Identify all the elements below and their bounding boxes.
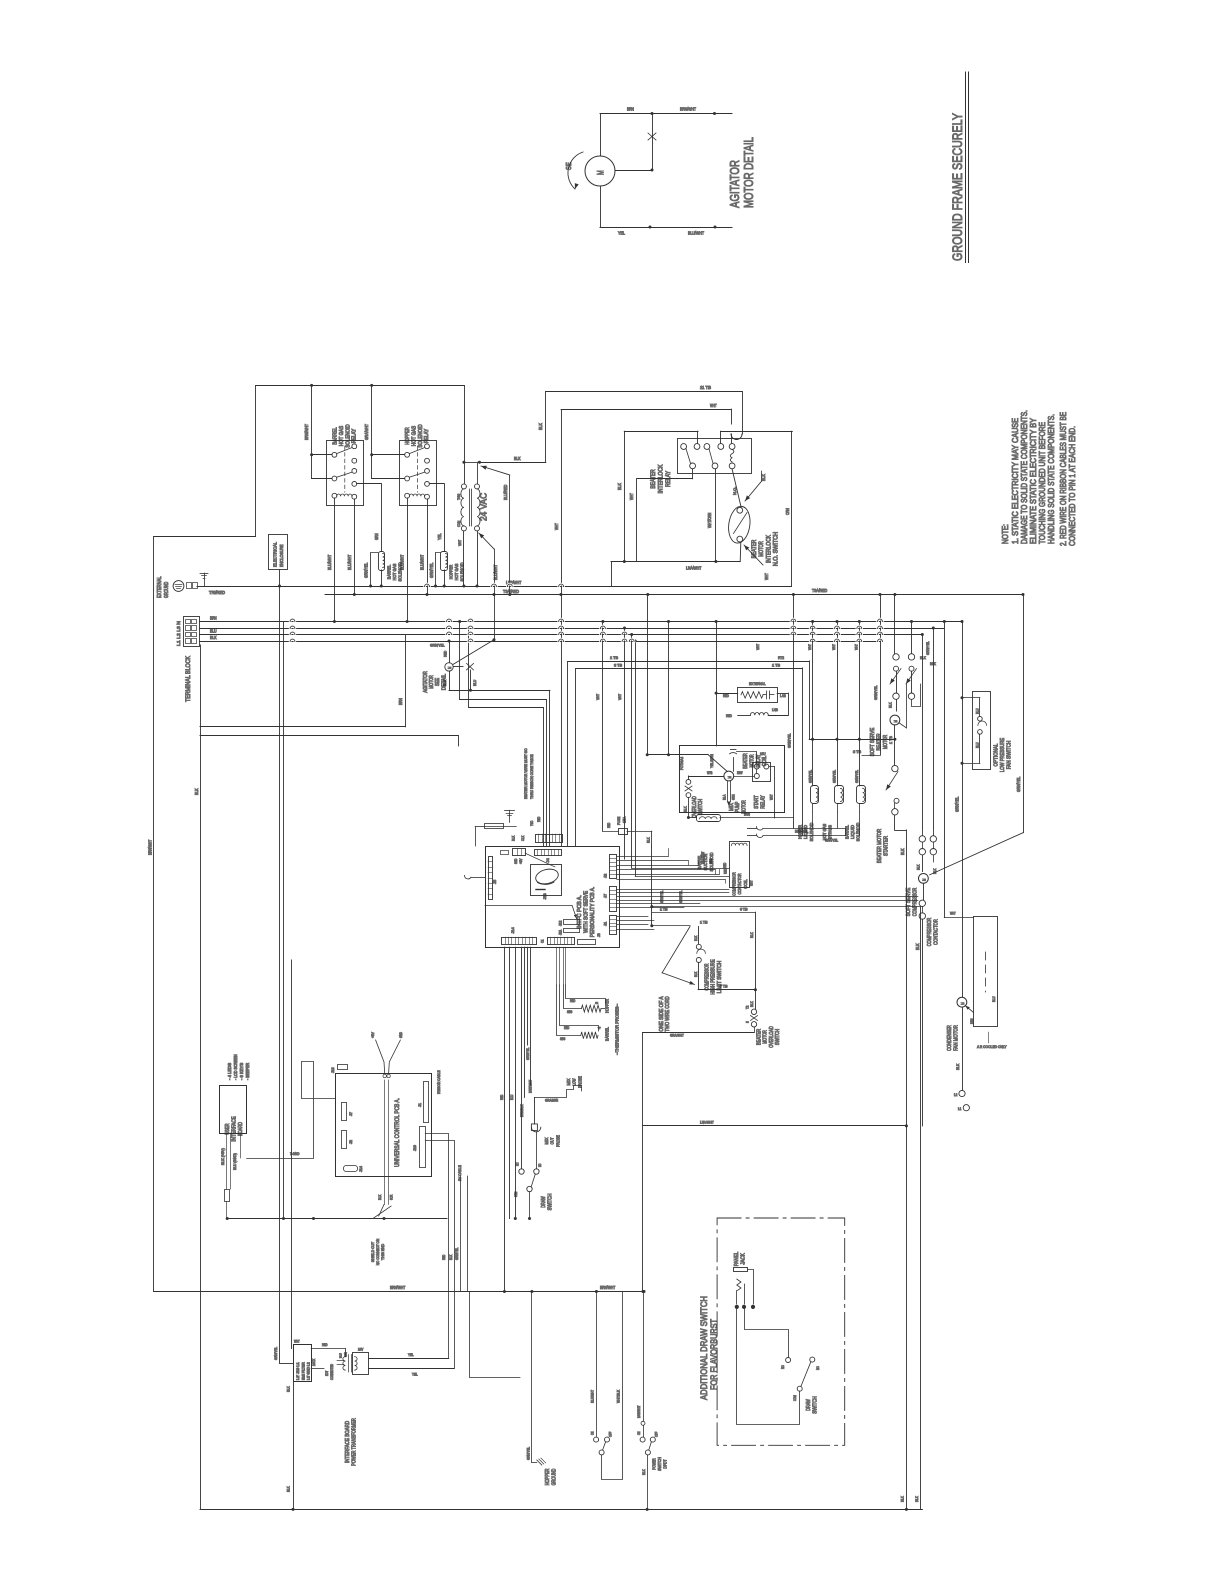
svg-text:RED: RED [570, 999, 576, 1003]
svg-text:CONTACTOR: CONTACTOR [934, 919, 940, 945]
svg-text:SOFT SERVE: SOFT SERVE [870, 727, 876, 756]
svg-text:OPTIONAL: OPTIONAL [994, 744, 1000, 767]
svg-text:BLU: BLU [210, 629, 217, 634]
svg-text:--THERMISTOR PROBES--: --THERMISTOR PROBES-- [615, 1003, 620, 1055]
svg-text:RED: RED [442, 1254, 446, 1260]
svg-text:BRN: BRN [744, 813, 750, 817]
svg-text:GROUND: GROUND [164, 582, 170, 598]
svg-text:9V CABLE: 9V CABLE [458, 1165, 462, 1181]
svg-text:BLK: BLK [442, 680, 447, 686]
svg-text:SIG: SIG [560, 1037, 566, 1041]
svg-text:RED: RED [322, 1343, 328, 1347]
svg-text:BRN/WHT: BRN/WHT [304, 424, 309, 440]
svg-text:AGITATOR: AGITATOR [423, 671, 429, 693]
svg-text:WHT: WHT [832, 644, 836, 650]
svg-text:TWC: TWC [530, 820, 534, 826]
svg-text:BRN/WHT: BRN/WHT [148, 839, 153, 855]
svg-text:GRN/YEL: GRN/YEL [855, 770, 859, 783]
svg-text:15A: 15A [622, 817, 627, 823]
svg-text:COMPRESSOR: COMPRESSOR [913, 888, 919, 917]
svg-text:BLK: BLK [915, 1496, 919, 1502]
svg-text:BLK: BLK [750, 1001, 754, 1007]
svg-text:+5V: +5V [519, 858, 523, 864]
svg-text:J9: J9 [597, 933, 601, 937]
svg-text:M: M [727, 776, 732, 779]
svg-text:CONDENSER: CONDENSER [947, 1025, 953, 1051]
svg-text:MIX: MIX [566, 1079, 571, 1086]
svg-text:NC: NC [516, 1162, 520, 1166]
svg-text:WHT: WHT [617, 693, 622, 700]
svg-text:HOPPER: HOPPER [545, 1469, 551, 1486]
svg-text:GRA/WHT: GRA/WHT [701, 852, 705, 864]
svg-text:J10: J10 [413, 1145, 417, 1151]
svg-text:YEL: YEL [437, 533, 442, 540]
svg-text:N.O. SWITCH: N.O. SWITCH [774, 532, 780, 566]
svg-text:24V: 24V [358, 1348, 364, 1352]
svg-text:JACK: JACK [741, 1253, 747, 1265]
svg-text:WHT/ORN: WHT/ORN [707, 513, 712, 528]
svg-text:LNA/WHT: LNA/WHT [700, 1121, 714, 1125]
svg-text:BLU/WHT: BLU/WHT [493, 564, 498, 580]
svg-text:CLK: CLK [521, 835, 525, 841]
svg-text:MOTOR DETAIL: MOTOR DETAIL [741, 137, 756, 208]
svg-text:C1: C1 [541, 939, 545, 943]
svg-text:BLK: BLK [647, 837, 651, 843]
svg-text:WITH SOFT SERVE: WITH SOFT SERVE [584, 891, 590, 933]
svg-text:M: M [893, 720, 898, 723]
svg-text:HOT GAS: HOT GAS [454, 564, 459, 581]
svg-text:T3A/RED: T3A/RED [812, 588, 827, 593]
svg-text:GRN/YEL: GRN/YEL [429, 562, 434, 578]
svg-text:- 4 LEDS: - 4 LEDS [227, 1063, 232, 1080]
svg-text:HOT GAS: HOT GAS [339, 426, 345, 447]
svg-text:ON: ON [591, 1431, 595, 1435]
svg-text:1 TB: 1 TB [700, 921, 708, 925]
svg-text:RELAY: RELAY [352, 428, 358, 443]
svg-text:EXTERNAL: EXTERNAL [157, 576, 163, 598]
svg-text:HOPPER: HOPPER [605, 998, 610, 1013]
svg-text:24 VAC: 24 VAC [479, 492, 489, 521]
svg-text:SOLENOID: SOLENOID [345, 424, 351, 447]
svg-text:SWITCH: SWITCH [657, 1457, 662, 1471]
svg-text:FUSE: FUSE [616, 816, 621, 825]
svg-text:GRN/YEL: GRN/YEL [808, 770, 812, 783]
svg-text:START: START [754, 795, 760, 809]
svg-text:BRN: BRN [970, 1018, 974, 1024]
svg-text:BLK: BLK [194, 788, 199, 795]
svg-text:7 TB: 7 TB [720, 985, 728, 989]
svg-text:J13: J13 [331, 1067, 335, 1073]
svg-text:SWITCH: SWITCH [775, 1029, 781, 1045]
svg-text:N.O.: N.O. [732, 487, 737, 495]
svg-text:ONE SIDE OF A: ONE SIDE OF A [659, 996, 665, 1032]
svg-text:YEL: YEL [618, 231, 625, 236]
svg-text:YEL: YEL [412, 1373, 418, 1377]
svg-text:- LCD SCREEN: - LCD SCREEN [233, 1054, 238, 1080]
svg-text:GRN/YEL: GRN/YEL [660, 891, 664, 903]
svg-text:GRN/YEL: GRN/YEL [787, 733, 792, 748]
svg-text:LNA/WHT: LNA/WHT [686, 566, 702, 571]
svg-text:GRA/BRN: GRA/BRN [545, 1099, 558, 1103]
svg-text:WHT: WHT [855, 644, 859, 650]
svg-text:BLU/WHT: BLU/WHT [420, 554, 425, 570]
svg-text:YEL/BRN: YEL/BRN [710, 754, 714, 768]
svg-text:COM: COM [514, 1192, 518, 1197]
svg-text:BEATER: BEATER [743, 753, 749, 769]
svg-text:RED: RED [500, 1094, 504, 1100]
svg-text:BLU: BLU [472, 680, 477, 686]
svg-text:RED: RED [723, 862, 727, 868]
svg-text:POWER TRANSFORMER: POWER TRANSFORMER [352, 1418, 358, 1466]
svg-text:M: M [447, 667, 452, 669]
svg-text:BLK: BLK [210, 635, 217, 640]
svg-text:BLK: BLK [761, 474, 766, 481]
svg-text:TERMINAL BLOCK: TERMINAL BLOCK [185, 656, 192, 702]
svg-text:CONNECTED TO PIN 1 AT EACH END: CONNECTED TO PIN 1 AT EACH END. [1067, 426, 1077, 546]
svg-text:GND: GND [514, 858, 518, 864]
svg-text:EMI FILTER: EMI FILTER [302, 1362, 306, 1380]
svg-text:BLK: BLK [900, 848, 905, 855]
svg-text:GRN/YEL: GRN/YEL [364, 562, 369, 578]
svg-text:BLU: BLU [975, 742, 979, 748]
svg-text:BLK: BLK [684, 806, 688, 812]
svg-text:WHT: WHT [755, 643, 760, 650]
svg-text:BRN/WHT: BRN/WHT [680, 107, 696, 112]
svg-text:CONTACTOR: CONTACTOR [737, 873, 742, 895]
svg-text:L1' J10 L1: L1' J10 L1 [296, 1362, 300, 1380]
svg-text:ADDITIONAL DRAW SWITCH: ADDITIONAL DRAW SWITCH [699, 1296, 709, 1400]
svg-text:MOTOR: MOTOR [763, 1030, 769, 1044]
svg-text:RED: RED [537, 816, 541, 822]
svg-text:SCR: SCR [390, 1194, 394, 1200]
svg-text:HOPPER: HOPPER [405, 427, 411, 445]
svg-text:OFF: OFF [609, 1432, 613, 1437]
svg-text:WHT: WHT [554, 523, 559, 530]
svg-text:CONNECTED: CONNECTED [330, 1364, 334, 1380]
svg-text:THRU RIBBON CORE TWICE: THRU RIBBON CORE TWICE [529, 754, 534, 799]
svg-text:OUT: OUT [550, 1137, 555, 1144]
svg-text:J1: J1 [418, 1103, 422, 1107]
svg-text:BLK: BLK [617, 483, 622, 490]
svg-text:PERSONALITY PCB A.: PERSONALITY PCB A. [590, 887, 596, 938]
svg-text:L1: L1 [958, 1107, 962, 1111]
svg-text:1 TB: 1 TB [772, 663, 780, 668]
svg-text:BLU: BLU [339, 1353, 343, 1358]
svg-text:M: M [960, 1002, 965, 1005]
svg-text:MOTOR: MOTOR [429, 675, 435, 689]
svg-text:RELAY: RELAY [424, 428, 430, 443]
svg-text:RELAY: RELAY [760, 795, 766, 809]
svg-text:BLK: BLK [512, 835, 516, 841]
svg-text:THIS END: THIS END [380, 1244, 385, 1260]
svg-text:FAN MOTOR: FAN MOTOR [954, 1025, 960, 1051]
svg-text:J13: J13 [542, 893, 547, 900]
svg-text:BEATER: BEATER [877, 733, 883, 750]
svg-text:BARREL: BARREL [333, 427, 339, 445]
svg-text:J2: J2 [349, 1140, 353, 1144]
svg-text:BLU/WHT: BLU/WHT [400, 554, 405, 570]
svg-text:GRN/YEL: GRN/YEL [1016, 776, 1021, 792]
svg-text:1 TB: 1 TB [610, 655, 618, 660]
svg-text:USER: USER [225, 1123, 231, 1134]
svg-text:A R COOLED ONLY: A R COOLED ONLY [977, 1045, 1007, 1049]
svg-text:T2: T2 [746, 1006, 750, 1009]
svg-text:BLK/WHT: BLK/WHT [591, 1389, 595, 1403]
svg-text:BLU/RED: BLU/RED [503, 485, 508, 500]
svg-text:STARTER: STARTER [884, 836, 890, 856]
svg-text:J11: J11 [559, 930, 563, 935]
svg-text:W7B: W7B [707, 771, 713, 775]
svg-text:COMPRESSOR: COMPRESSOR [705, 963, 711, 990]
svg-text:WHT: WHT [710, 403, 717, 408]
svg-text:WHT: WHT [750, 880, 754, 886]
svg-text:BRN/WHT: BRN/WHT [390, 1285, 406, 1290]
svg-text:M: M [596, 170, 606, 175]
svg-text:1 TB: 1 TB [889, 736, 893, 744]
svg-text:K5W: K5W [737, 771, 743, 775]
svg-text:11 TB: 11 TB [700, 385, 711, 390]
svg-text:GROUND: GROUND [551, 1469, 557, 1486]
svg-text:LOW PRESSURE: LOW PRESSURE [1000, 738, 1006, 773]
svg-text:MIX: MIX [544, 1138, 549, 1145]
svg-text:GRN/YEL: GRN/YEL [430, 643, 445, 648]
svg-text:DRAW: DRAW [541, 1196, 547, 1208]
svg-text:BRN/BLK: BRN/BLK [520, 1104, 524, 1117]
svg-text:GROUND FRAME SECURELY: GROUND FRAME SECURELY [950, 113, 965, 261]
svg-text:BLK: BLK [889, 702, 893, 708]
svg-text:GRN/YEL: GRN/YEL [873, 685, 878, 700]
svg-text:740: 740 [456, 493, 461, 500]
svg-text:SOLENOID: SOLENOID [809, 822, 814, 841]
svg-text:J14: J14 [510, 927, 515, 934]
svg-text:BARREL: BARREL [844, 825, 849, 839]
svg-text:RED: RED [726, 714, 732, 718]
svg-text:HOT GAS: HOT GAS [392, 564, 397, 581]
svg-text:BLU: BLU [992, 996, 996, 1002]
svg-text:PROBE: PROBE [577, 1076, 582, 1088]
svg-text:BLK: BLK [694, 935, 698, 941]
svg-text:ON: ON [637, 1431, 641, 1435]
svg-text:NOT: NOT [325, 1371, 329, 1376]
svg-text:BARREL: BARREL [387, 564, 392, 579]
svg-text:SWITCH: SWITCH [547, 1194, 553, 1211]
svg-text:RED: RED [723, 694, 729, 698]
svg-text:DPDT: DPDT [662, 1459, 667, 1468]
svg-text:HIGH PRESSURE: HIGH PRESSURE [711, 959, 717, 995]
svg-text:BLU: BLU [975, 708, 979, 714]
svg-text:SIG: SIG [567, 1010, 573, 1014]
svg-text:INTFC PCB A.: INTFC PCB A. [577, 895, 583, 929]
svg-text:GRN/YEL: GRN/YEL [455, 1248, 459, 1260]
svg-text:WHT/BLK: WHT/BLK [617, 1389, 621, 1403]
svg-text:NO: NO [816, 1366, 820, 1370]
svg-text:NC: NC [781, 1365, 785, 1369]
svg-text:L2: L2 [954, 1093, 958, 1097]
svg-text:GRN/YEL: GRN/YEL [833, 770, 837, 783]
svg-text:SWITCH: SWITCH [698, 799, 704, 815]
svg-text:PROBE: PROBE [555, 1135, 560, 1147]
svg-text:7-GND: 7-GND [290, 1152, 300, 1156]
svg-text:RED: RED [564, 1026, 570, 1030]
svg-text:BRN/WHT: BRN/WHT [600, 1285, 616, 1290]
svg-text:GND: GND [399, 1032, 403, 1038]
svg-text:GRN: GRN [344, 1352, 348, 1357]
svg-text:COMPRESSOR: COMPRESSOR [732, 872, 737, 896]
svg-text:HOPPER: HOPPER [449, 564, 454, 579]
svg-text:M: M [922, 878, 927, 881]
svg-text:RIBBON CABLE: RIBBON CABLE [437, 1070, 441, 1094]
svg-text:SEE: SEE [435, 678, 441, 687]
svg-text:PUMP: PUMP [735, 801, 741, 812]
svg-text:BRN: BRN [398, 698, 403, 705]
svg-text:WHT: WHT [629, 493, 634, 500]
svg-text:BEATER MOTOR: BEATER MOTOR [877, 829, 883, 863]
svg-text:3 TB: 3 TB [614, 663, 622, 668]
svg-text:J7: J7 [349, 1112, 353, 1116]
svg-text:INTERFACE BOARD: INTERFACE BOARD [345, 1421, 351, 1463]
svg-text:POWER: POWER [652, 1458, 657, 1469]
svg-text:SWITCH: SWITCH [813, 1396, 819, 1414]
svg-text:BLK: BLK [642, 1469, 646, 1475]
svg-text:WHT: WHT [294, 1340, 300, 1344]
svg-text:COIL: COIL [743, 879, 748, 889]
svg-text:INTERLOCK: INTERLOCK [766, 535, 772, 563]
svg-text:PCT08A4: PCT08A4 [680, 757, 684, 770]
svg-text:PANEL: PANEL [734, 1252, 740, 1267]
svg-text:UNIVERSAL CONTROL PCB A.: UNIVERSAL CONTROL PCB A. [394, 1098, 401, 1167]
svg-text:WHT: WHT [595, 693, 600, 700]
svg-text:BLK: BLK [915, 943, 920, 950]
svg-text:BYPASS: BYPASS [828, 825, 833, 839]
svg-text:BEATER MOTOR WIRE MUST GO: BEATER MOTOR WIRE MUST GO [523, 748, 528, 799]
svg-text:BLK: BLK [538, 423, 543, 430]
svg-text:BLK: BLK [287, 1386, 291, 1392]
svg-text:NO: NO [538, 1163, 542, 1167]
svg-text:LOW: LOW [572, 1078, 577, 1086]
svg-text:LIQUID: LIQUID [850, 824, 855, 839]
svg-text:BLU/WHT: BLU/WHT [347, 554, 352, 570]
svg-text:10U: 10U [760, 752, 766, 756]
svg-text:RED: RED [607, 822, 611, 828]
svg-text:GRN: GRN [709, 858, 713, 864]
svg-text:YEL: YEL [408, 1353, 414, 1357]
svg-text:BEATER: BEATER [752, 539, 758, 558]
svg-text:GRN: GRN [732, 794, 736, 800]
svg-text:BLK (+5V): BLK (+5V) [221, 1148, 225, 1165]
svg-text:T3A/RED: T3A/RED [503, 589, 519, 594]
svg-text:1 TB: 1 TB [660, 907, 668, 911]
svg-text:L1 L2 L3 N: L1 L2 L3 N [176, 620, 182, 646]
svg-text:GRN/YEL: GRN/YEL [526, 1048, 530, 1060]
svg-text:6 TB: 6 TB [740, 907, 748, 911]
svg-text:BLK: BLK [378, 1194, 382, 1200]
svg-text:RED: RED [442, 651, 447, 657]
svg-text:BLK: BLK [449, 1254, 453, 1260]
svg-text:OFF: OFF [654, 1432, 658, 1437]
svg-text:BLK: BLK [287, 1486, 291, 1492]
svg-text:- 6 KEYS: - 6 KEYS [239, 1063, 244, 1080]
svg-text:NOTE:: NOTE: [1000, 524, 1010, 544]
svg-text:MOTOR: MOTOR [759, 541, 765, 557]
svg-text:RED: RED [724, 868, 728, 874]
svg-text:BLK: BLK [955, 1064, 960, 1070]
svg-text:GRN/YEL: GRN/YEL [679, 891, 683, 903]
svg-text:GRN: GRN [374, 533, 379, 540]
svg-text:GRN/YEL: GRN/YEL [527, 1447, 531, 1460]
svg-text:HANDLING SOLID STATE COMPONENT: HANDLING SOLID STATE COMPONENTS. [1046, 414, 1056, 544]
svg-text:BLU: BLU [510, 1094, 514, 1100]
svg-text:24CX: 24CX [312, 1358, 316, 1366]
svg-text:BLA: BLA [723, 794, 727, 800]
svg-text:GRA/YEL: GRA/YEL [825, 839, 838, 843]
svg-text:WHT: WHT [770, 794, 774, 800]
svg-text:BRN: BRN [210, 616, 217, 621]
svg-text:RELAY: RELAY [665, 471, 672, 487]
svg-text:J14: J14 [359, 1166, 363, 1172]
svg-text:J12: J12 [559, 921, 563, 926]
svg-text:BLK: BLK [917, 864, 921, 870]
svg-text:GRN/YEL: GRN/YEL [274, 1347, 278, 1360]
svg-text:RT2: RT2 [778, 655, 784, 660]
svg-text:L2' GND L2: L2' GND L2 [307, 1362, 311, 1380]
svg-text:GRA/WHT: GRA/WHT [364, 424, 369, 440]
svg-text:ENCLOSURE: ENCLOSURE [279, 545, 285, 568]
svg-text:FOR FLAVORBURST: FOR FLAVORBURST [709, 1319, 719, 1390]
svg-text:TRI/RED: TRI/RED [209, 590, 225, 595]
svg-text:BLU/WHT: BLU/WHT [688, 231, 704, 236]
svg-text:BEATER: BEATER [757, 1029, 763, 1045]
svg-text:BARREL: BARREL [605, 1027, 610, 1041]
svg-text:+5V: +5V [371, 1032, 375, 1038]
svg-text:LNB: LNB [772, 708, 778, 712]
svg-text:BLK: BLK [514, 456, 521, 461]
svg-text:WHT: WHT [808, 644, 812, 650]
svg-text:3 TB: 3 TB [853, 749, 861, 754]
svg-text:HOT GAS: HOT GAS [411, 426, 417, 447]
svg-text:LAB: LAB [780, 694, 786, 698]
svg-text:SOLENOID: SOLENOID [418, 424, 424, 447]
svg-text:COMPRESSOR: COMPRESSOR [927, 918, 933, 947]
svg-text:GRN/YEL: GRN/YEL [955, 796, 960, 812]
svg-text:BLK: BLK [750, 932, 754, 938]
svg-text:WHT: WHT [950, 912, 956, 916]
svg-text:AGITATOR: AGITATOR [727, 160, 742, 208]
svg-text:EXTERNAL: EXTERNAL [749, 681, 766, 686]
svg-text:FAN SWITCH: FAN SWITCH [1007, 741, 1013, 770]
svg-text:BLK: BLK [901, 1496, 905, 1502]
svg-text:ORN: ORN [785, 508, 790, 515]
svg-text:GRN/YEL: GRN/YEL [926, 641, 930, 655]
svg-text:COM: COM [456, 521, 461, 527]
svg-text:BAR/WHT: BAR/WHT [637, 1406, 641, 1418]
svg-text:BRN: BRN [627, 107, 634, 112]
svg-text:BLU/WHT: BLU/WHT [327, 554, 332, 570]
svg-text:BLK: BLK [694, 971, 698, 977]
svg-text:GRA/WHT: GRA/WHT [670, 1034, 684, 1038]
svg-text:BLU (GND): BLU (GND) [233, 1153, 237, 1170]
svg-text:OVERLOAD: OVERLOAD [769, 1026, 775, 1048]
svg-text:ELECTRICAL: ELECTRICAL [273, 542, 279, 567]
svg-text:TWO WIRE CORD: TWO WIRE CORD [665, 996, 671, 1031]
svg-text:DRAW: DRAW [806, 1399, 812, 1411]
svg-text:SOFT SERVE: SOFT SERVE [906, 887, 912, 916]
svg-text:WHT: WHT [457, 539, 462, 546]
svg-text:MIX: MIX [729, 802, 735, 811]
svg-text:BRN/YEL: BRN/YEL [795, 829, 808, 833]
svg-text:SE: SE [564, 162, 573, 170]
svg-text:- BEEPER: - BEEPER [245, 1063, 250, 1080]
svg-text:BLK: BLK [920, 656, 926, 660]
